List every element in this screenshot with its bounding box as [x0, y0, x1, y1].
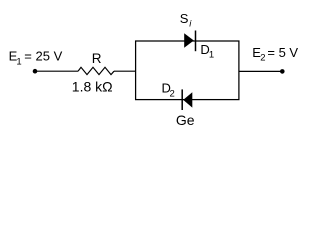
- wire from resistor to network box: [114, 70, 136, 72]
- svg-text:1.8 kΩ: 1.8 kΩ: [72, 79, 113, 95]
- label Si (silicon) for D1: [180, 11, 193, 29]
- wire from E1 terminal to resistor: [36, 70, 78, 72]
- label D1: [200, 42, 214, 61]
- diode D2 (bottom branch, pointing left) triangle: [183, 92, 192, 107]
- svg-text:= 5 V: = 5 V: [267, 45, 298, 60]
- network rectangle (parallel diode branches): [136, 41, 239, 100]
- svg-text:R: R: [92, 51, 102, 66]
- svg-text:Ge: Ge: [176, 112, 195, 128]
- source E2 label "E2 = 5 V": [252, 45, 298, 64]
- svg-text:S: S: [180, 11, 189, 26]
- resistor R zigzag: [78, 67, 114, 74]
- terminal dot E2: [280, 69, 285, 74]
- label D2: [162, 81, 175, 100]
- terminal dot E1: [33, 69, 38, 74]
- source E1 label "E1 = 25 V": [9, 48, 63, 67]
- svg-text:2: 2: [260, 53, 265, 64]
- svg-text:1: 1: [209, 49, 214, 60]
- svg-text:2: 2: [170, 89, 175, 100]
- diode D1 (top branch, pointing right) triangle: [184, 33, 194, 47]
- diode D2 cathode bar: [181, 89, 183, 110]
- svg-text:= 25 V: = 25 V: [24, 48, 62, 63]
- wire from network box to E2 terminal: [239, 70, 282, 72]
- svg-text:1: 1: [16, 57, 21, 68]
- diode D1 cathode bar: [195, 31, 197, 52]
